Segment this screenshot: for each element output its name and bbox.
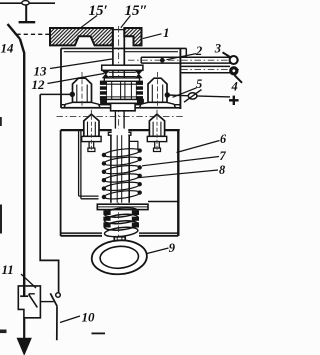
spring 7 coil 4 right knob [138,174,142,178]
ground arrow head [17,338,31,354]
fixed block right part (hatched) [124,28,141,45]
leader 8 [137,170,218,178]
detachable contact 5 [188,93,197,99]
plate C dark end right [137,100,143,103]
leader 15dblprime [121,16,131,28]
spring 7 coil 5 right knob [138,182,142,186]
lever 2 centerline [128,59,239,61]
post P1 slot right [86,85,88,103]
shaft right edge [123,28,125,66]
lower box bottom line2 right [139,235,178,237]
post P3 stem [89,142,94,149]
wire to plus terminal [167,95,230,97]
nut on shaft [111,103,136,111]
lower box top edge [61,129,180,131]
bobbin inner line 4 [130,82,132,99]
post P2 body [148,78,167,102]
spring 7 coil 3 [104,164,141,175]
horizontal centerline [57,116,184,118]
svg-text:2: 2 [195,44,202,58]
seal gland right (hourglass) [136,71,142,78]
svg-text:5: 5 [196,77,202,91]
leader 4 [235,75,243,83]
svg-text:14: 14 [1,41,15,56]
stem inner left [116,238,118,248]
vertical axis centerline [118,26,120,248]
buffer spring 8 coil 3 [104,219,138,231]
svg-text:10: 10 [82,310,96,325]
plus sign horizontal [229,99,239,101]
leader 15prime [77,16,97,31]
spring 7 coil 6 [104,189,141,200]
switch 10 pivot circle [56,293,61,298]
winding stack left [100,81,106,101]
lower box right wall [177,130,179,236]
leader 5 [173,88,197,98]
post P3 slot right [94,122,96,137]
spring 7 coil 2 left knob [102,161,106,165]
post P2 base [140,102,176,107]
spring 7 coil 3 right knob [138,165,142,169]
tube white fill [112,129,129,203]
svg-text:1: 1 [163,25,170,40]
wire terminal drop [25,5,27,21]
relay 11 box [18,286,40,318]
svg-text:13: 13 [34,64,48,79]
chamber shelf right [148,201,178,203]
scan mark [0,117,2,126]
buffer spring 8 coil 2 [104,213,138,225]
spring 7 coil 1 left knob [102,153,106,157]
lower box bottom line1 left [61,232,102,234]
spring 7 coil 2 right knob [138,157,142,161]
post P4 foot [154,148,161,151]
spring 7 coil 4 left knob [102,178,106,182]
post P4 axis [156,110,158,150]
rod 4 top line [181,65,230,67]
junction dot left post [70,92,75,97]
lower box bottom line1 right [139,232,178,234]
pivot dot on lever 2 [160,58,165,63]
gasket line 2 [109,76,136,78]
upper box top edge / lever support plate [61,47,186,49]
bobbin inner line 3 [124,82,126,99]
post P4 body [149,114,164,136]
plate C dark end left [101,100,107,103]
svg-text:6: 6 [220,132,227,146]
lower box left wall [60,130,62,236]
ring 9 outer [91,239,148,277]
wire main left vertical [20,39,24,296]
buffer spring 8 coil 1 [104,206,138,218]
leader 7 [142,157,219,166]
svg-text:3: 3 [214,42,221,56]
post P4 slot left [152,122,154,137]
shaft top cap [113,29,124,31]
seat plate mid line [97,206,148,208]
leader 1 [143,34,162,39]
buffer end right [132,210,139,227]
upper box inner top left [64,51,113,53]
bracket at tube top right [129,141,138,149]
end eye 3 of lever 2 [230,56,238,64]
lower box bottom line2 left [61,235,102,237]
contact bar of switch 14 [19,21,36,23]
bobbin top band [106,83,136,85]
post P3 foot [88,148,95,151]
junction dot right post [165,92,170,97]
post P1 axis [81,72,83,106]
ring 9 inner [99,245,139,269]
winding stack right [137,81,143,101]
leader 9 [147,248,169,254]
leader 11 [21,274,36,288]
wire relay to switch 10 [40,301,53,303]
switch 10 blade [50,293,57,306]
plus sign vertical [233,96,235,105]
inner rod left [116,135,118,203]
upper box left wall [60,48,62,108]
upper box right wall [179,48,181,109]
leader 12 [48,74,105,84]
relay blade [29,294,38,307]
minus mark [92,332,106,334]
neck right [123,111,125,133]
switch 14 blade [8,24,21,39]
upper box inner top right [124,51,178,53]
svg-text:15″: 15″ [125,3,148,19]
shaft 15" left edge [112,28,114,66]
spring 7 coil 1 [104,147,141,158]
svg-text:12: 12 [32,77,46,92]
leader 6 [177,141,220,153]
rod 4 centerline [181,69,239,71]
bobbin inner line 1 [111,82,113,99]
seal gland left (hourglass) [103,71,109,78]
spring 7 coil 6 left knob [102,195,106,199]
spring 7 coil 5 left knob [102,186,106,190]
bobbin frame 13 [106,81,136,99]
post P4 slot right [160,122,162,137]
post P4 stem [155,142,160,149]
plate B [104,78,139,82]
wire down to switch 10 [40,94,58,292]
svg-text:4: 4 [231,80,238,94]
rod 4 end eye [230,67,238,75]
dashed link switch to block [17,33,51,35]
post P3 base [82,136,101,141]
bobbin inner line 2 [120,82,122,99]
tube wall right [128,135,130,203]
post P2 slot right [162,85,164,103]
stem to ring [114,237,125,248]
relay contact bar [20,295,28,297]
tube top cap [108,132,130,135]
post P3 slot left [87,122,89,137]
upper box bottom line 2 [61,107,180,109]
leader 13 [50,59,112,69]
lever 2 left end cap [140,57,142,63]
chamber shelf left line2 [81,198,99,200]
relay contact tick [29,293,35,295]
bobbin bottom band [106,96,136,98]
spring 7 coil 1 right knob [138,148,142,152]
post P1 base [64,102,100,107]
wire to ground arrow [23,318,25,341]
chamber inner wall left inner [80,130,82,199]
svg-text:8: 8 [219,163,225,177]
buffer spring 8 coil 4 [104,226,138,238]
svg-text:7: 7 [220,149,227,163]
post P3 body [84,114,99,136]
terminal T1 [22,1,29,5]
rod 4 bottom line [181,72,230,74]
scan mark [0,330,7,334]
svg-text:15′: 15′ [89,3,108,19]
wire supply top horizontal [0,2,55,4]
post P1 body [73,78,92,102]
lever 2 top line [141,56,230,58]
slash through contact 5 [184,90,202,103]
tube wall left [110,135,112,203]
spring seat plate [97,204,148,209]
fixed block 15 left part (hatched) [50,28,113,45]
wire from left post [40,93,73,95]
svg-text:11: 11 [2,262,14,277]
switch 10 lower lead [56,306,58,340]
post P3 axis [90,110,92,150]
post P1 slot left [76,85,78,103]
plate right end drop [185,48,187,57]
inner rod right [121,135,123,203]
shaft through gasket right [123,71,125,78]
neck left [114,111,116,133]
leader 10 [60,316,80,323]
post P2 slot left [151,85,153,103]
scan mark [0,205,2,234]
chamber inner wall left outer [78,130,80,196]
upper box bottom line 1 [61,104,180,106]
spring 7 coil 6 right knob [138,190,142,194]
gasket line 1 [109,71,136,73]
svg-text:9: 9 [169,241,176,255]
shaft through gasket left [112,71,114,78]
plate C [101,100,143,104]
collar plate A [102,65,143,70]
leader 3 [223,52,231,57]
post P4 base [147,136,166,141]
chamber shelf left line1 [79,195,99,197]
buffer end left [103,210,110,227]
post P2 axis [157,72,159,106]
spring 7 coil 2 [104,156,141,167]
leader 2 [167,54,197,60]
spring 7 coil 5 [104,181,141,192]
lever 2 bottom line [141,62,230,64]
spring 7 coil 3 left knob [102,170,106,174]
stem inner right [121,238,123,248]
spring 7 coil 4 [104,172,141,183]
